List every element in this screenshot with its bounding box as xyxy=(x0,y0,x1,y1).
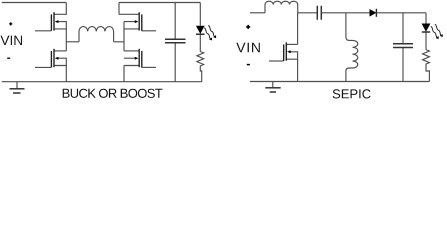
wire switch node A xyxy=(66,29,79,51)
wire Q2 source to ground rail xyxy=(65,66,67,82)
transistor Q4 xyxy=(124,49,156,68)
capacitor C3 xyxy=(393,13,413,82)
inductor L2 xyxy=(265,1,298,13)
wire junction to L3 xyxy=(345,13,347,37)
LED D1 xyxy=(196,3,205,52)
wire Q4 source to ground rail xyxy=(123,66,125,82)
transistor Q2 xyxy=(35,49,66,68)
wire ground rail (left circuit) xyxy=(2,81,202,83)
wire C2 to diode D2 xyxy=(321,12,369,14)
label SEPIC xyxy=(333,89,371,98)
resistor R2 xyxy=(423,50,430,82)
node VIN plus terminal (SEPIC) xyxy=(246,25,250,29)
wire L2 to C2 xyxy=(298,12,318,14)
transistor Q3 xyxy=(119,3,156,31)
wire VIN+ stub (SEPIC) xyxy=(250,12,265,14)
wire output top rail xyxy=(119,2,200,4)
transistor Q5 xyxy=(269,13,298,61)
wire ground rail (SEPIC) xyxy=(250,81,429,83)
ground (SEPIC) xyxy=(265,82,280,93)
LED D3 xyxy=(422,13,431,50)
wire Q5 source to ground rail xyxy=(297,59,299,81)
inductor L3 xyxy=(346,37,358,82)
node VIN minus terminal xyxy=(7,57,10,59)
label BUCK OR BOOST xyxy=(63,89,163,98)
capacitor C1 xyxy=(165,3,186,82)
wire VIN+ top rail (left circuit) xyxy=(2,2,67,4)
diode D2 xyxy=(370,9,377,17)
node VIN label (SEPIC) xyxy=(236,43,259,53)
ground (left circuit) xyxy=(10,82,25,93)
LED D1 emission arrows xyxy=(203,25,218,42)
node VIN plus terminal xyxy=(9,22,12,25)
resistor R1 xyxy=(197,52,204,82)
node VIN minus terminal (SEPIC) xyxy=(247,64,250,66)
transistor Q1 xyxy=(35,3,66,31)
inductor L1 xyxy=(79,27,114,42)
LED D3 emission arrows xyxy=(429,23,444,40)
wire D2 to output xyxy=(376,12,426,14)
capacitor C2 xyxy=(317,6,321,20)
wire switch node B xyxy=(114,22,124,51)
node VIN label xyxy=(1,36,23,45)
